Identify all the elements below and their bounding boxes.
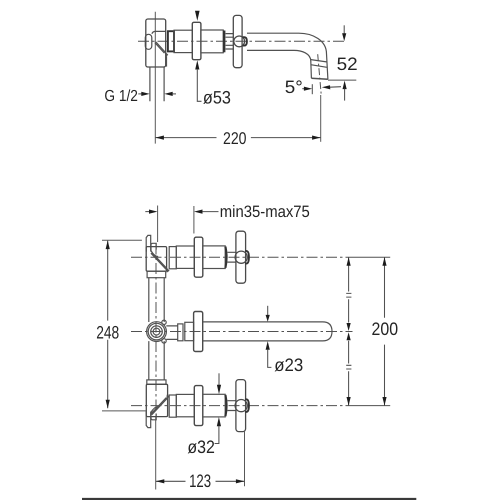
dim o53 top arrow <box>195 11 200 21</box>
svg-text:ø23: ø23 <box>274 355 303 375</box>
svg-text:min35-max75: min35-max75 <box>220 203 310 221</box>
wall elbow body (top view) <box>146 19 166 67</box>
lower valve flange disc <box>194 386 203 426</box>
dim o53 bottom arrow and leader <box>195 60 199 69</box>
G 1/2 inlet socket capsule <box>145 34 152 49</box>
spout tube o23 <box>203 322 332 341</box>
bottom view: lower valve horizontal centerline <box>131 405 356 407</box>
upper handle front arm cap (thick) <box>245 251 249 264</box>
valve body cylinder <box>174 30 192 52</box>
lower bracket front step <box>151 413 156 420</box>
upper sleeve end ring (thick) <box>225 247 226 268</box>
dim 220 extension line (right) <box>320 95 322 142</box>
lower cross handle vertical arm <box>236 380 246 432</box>
upper valve union piece <box>169 247 176 269</box>
dim 123 extension lines <box>156 417 245 490</box>
svg-text:ø53: ø53 <box>203 88 231 108</box>
valve stem lines <box>226 34 234 49</box>
cross handle vertical arm (edge view) <box>233 15 242 67</box>
dim 123 line with arrows <box>156 480 245 482</box>
dim 248 line with arrows <box>107 241 109 409</box>
equality marks <box>346 293 351 369</box>
upper valve outer sleeve <box>203 246 225 269</box>
svg-text:5°: 5° <box>285 77 303 97</box>
vertical pipe centerline <box>155 244 157 417</box>
flange disc o53 (edge view) <box>192 22 201 59</box>
dim 5deg left arrow <box>302 88 304 90</box>
supply pipe below elbow <box>150 67 164 101</box>
seam tail line <box>166 56 168 66</box>
spout mounting sleeve <box>185 322 194 340</box>
bottom view: spout horizontal centerline <box>131 331 353 333</box>
elbow inner top contour <box>152 31 166 33</box>
middle spout elbow circles (front) <box>147 322 167 342</box>
svg-text:200: 200 <box>372 319 399 339</box>
lower elbow body <box>146 384 167 416</box>
lower wall-bracket ear <box>146 412 151 428</box>
spout tip reference line <box>328 79 356 81</box>
dim 200 line with arrows <box>384 257 386 405</box>
upper valve stem lines <box>228 252 236 262</box>
dim 52 upper arrow <box>343 25 345 33</box>
upper valve flange disc <box>194 237 203 277</box>
G 1/2 threaded connector (thick) <box>168 31 174 51</box>
lower pipe union collar <box>147 380 166 384</box>
handle front arm cap (thick) <box>243 37 247 45</box>
svg-text:ø32: ø32 <box>187 437 215 457</box>
lower sleeve end ring (thick) <box>225 395 226 416</box>
riser pipe lower section <box>149 341 164 380</box>
spout end tilted axis centerline <box>318 54 322 94</box>
bottom frame border line <box>82 498 416 500</box>
lower valve outer sleeve <box>203 394 225 417</box>
lower valve body cylinder o32 <box>176 394 194 416</box>
outer sleeve cylinder <box>201 30 223 53</box>
svg-text:220: 220 <box>223 129 247 148</box>
upper pipe union collar <box>147 271 166 278</box>
dim o32 arrows and leader <box>218 373 220 385</box>
dim 5deg: vertical reference tick <box>311 84 313 94</box>
sleeve end ring (thick) <box>223 31 225 53</box>
dim 52 lower arrow <box>343 81 347 90</box>
lower bracket arc <box>151 407 158 413</box>
upper elbow diagonal seam <box>151 252 167 269</box>
dim G 1/2 arrows <box>138 93 141 95</box>
dim min35-max75 extension lines <box>158 206 194 243</box>
upper valve body cylinder o32 <box>176 246 194 268</box>
svg-text:123: 123 <box>189 471 211 491</box>
dim min35-max75 arrows <box>145 211 149 213</box>
dim o23 arrows and leader <box>267 306 269 316</box>
aerator joint lines <box>311 60 327 68</box>
diagonal seam wedge <box>165 52 168 56</box>
lower handle hub circle <box>235 400 247 412</box>
upper elbow body <box>146 247 166 272</box>
lower elbow seam wedge <box>167 395 169 399</box>
top view: vertical centerline of wall elbow <box>154 12 156 144</box>
svg-text:52: 52 <box>337 54 358 74</box>
handle hub circle <box>234 36 245 47</box>
svg-text:248: 248 <box>96 323 119 343</box>
upper wall-bracket ear <box>146 235 151 251</box>
lower valve union piece <box>169 395 176 417</box>
spout outlet end face <box>311 78 328 79</box>
dim 220 line <box>155 137 320 139</box>
upper bracket front step <box>151 243 156 250</box>
spout flange disc <box>194 312 203 352</box>
elbow internal diagonal seam <box>155 42 166 53</box>
upper cross handle vertical arm <box>236 231 246 283</box>
dim 5deg right arrow <box>322 85 331 89</box>
lower valve stem lines <box>228 401 236 411</box>
dim 248 extension lines <box>102 240 146 411</box>
spout tube outline with 90-degree bend <box>247 33 328 79</box>
lower elbow diagonal seam <box>151 398 167 415</box>
upper elbow seam wedge <box>167 268 169 272</box>
bottom view: upper valve horizontal centerline <box>131 256 356 258</box>
top view: horizontal centerline <box>138 40 346 42</box>
upper bracket arc <box>151 250 158 256</box>
lower handle front arm cap (thick) <box>245 399 249 412</box>
riser pipe upper section <box>149 278 164 322</box>
spout union nut <box>178 324 183 341</box>
equal-split dimension line <box>348 257 350 405</box>
spout connector lines <box>166 326 177 340</box>
middle elbow upper lug <box>162 320 166 324</box>
svg-text:G 1/2: G 1/2 <box>104 88 138 105</box>
upper handle hub circle <box>235 251 247 263</box>
middle elbow lower lug <box>162 339 166 343</box>
